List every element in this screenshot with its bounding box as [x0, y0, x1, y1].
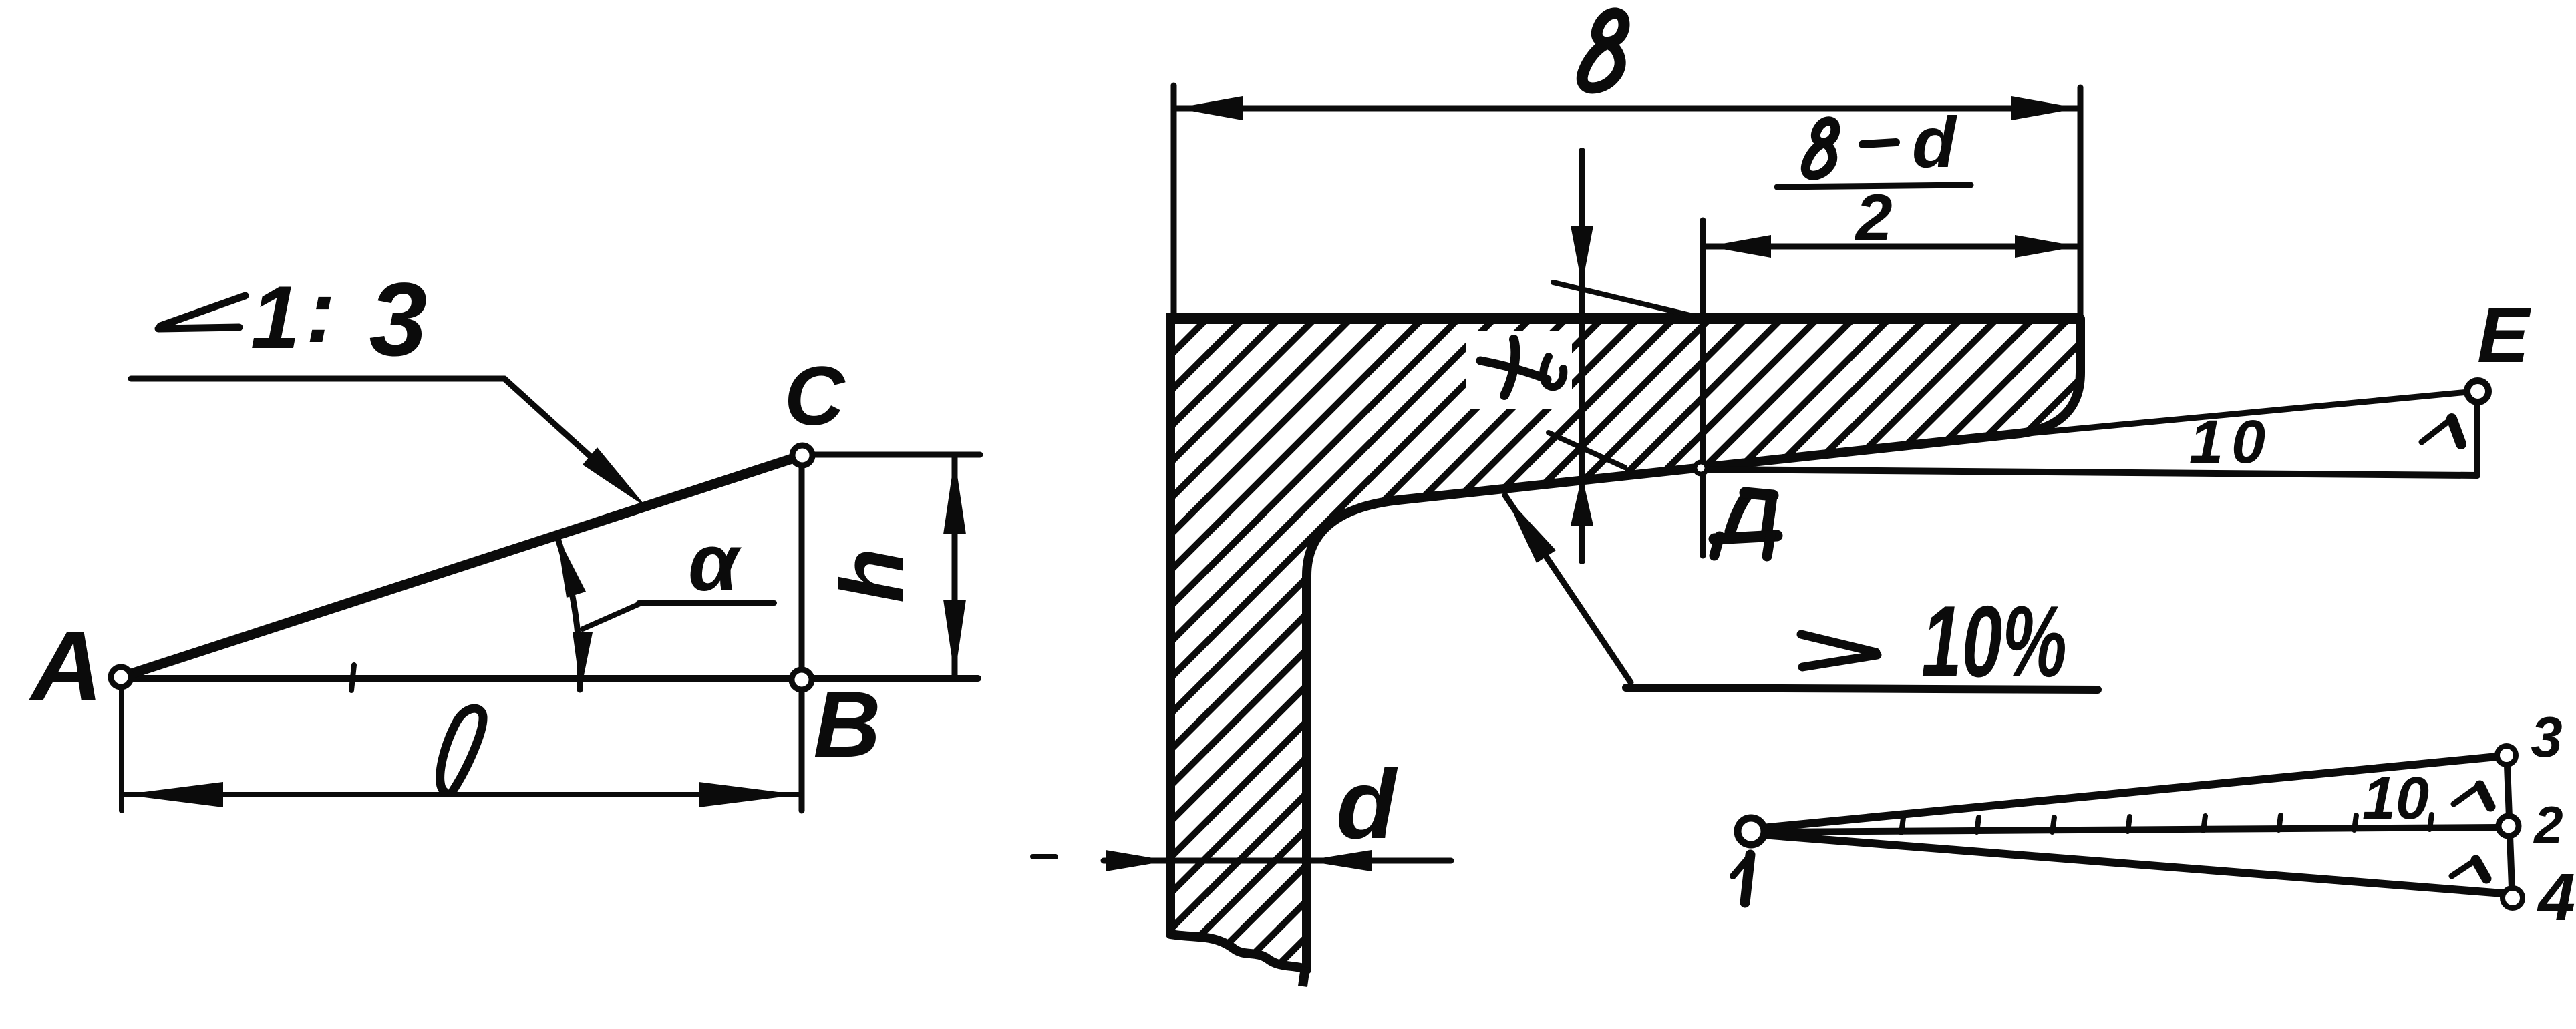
svg-text:10: 10 [2362, 765, 2429, 832]
svg-text:4: 4 [2537, 860, 2575, 935]
svg-text:C: C [784, 350, 846, 443]
svg-text:α: α [688, 517, 742, 608]
svg-text:d: d [1336, 750, 1398, 859]
svg-text:B: B [813, 672, 880, 777]
svg-text:d: d [1912, 101, 1957, 182]
svg-text:10: 10 [2189, 408, 2273, 476]
svg-text:A: A [29, 611, 103, 721]
svg-text:3: 3 [369, 262, 428, 378]
svg-text::: : [306, 262, 335, 361]
svg-text:h: h [822, 548, 923, 603]
svg-text:1: 1 [251, 268, 300, 367]
svg-text:2: 2 [2533, 795, 2563, 854]
svg-text:3: 3 [2531, 706, 2562, 769]
svg-text:10%: 10% [1921, 585, 2067, 698]
svg-text:2: 2 [1854, 180, 1892, 254]
svg-text:E: E [2477, 291, 2531, 379]
